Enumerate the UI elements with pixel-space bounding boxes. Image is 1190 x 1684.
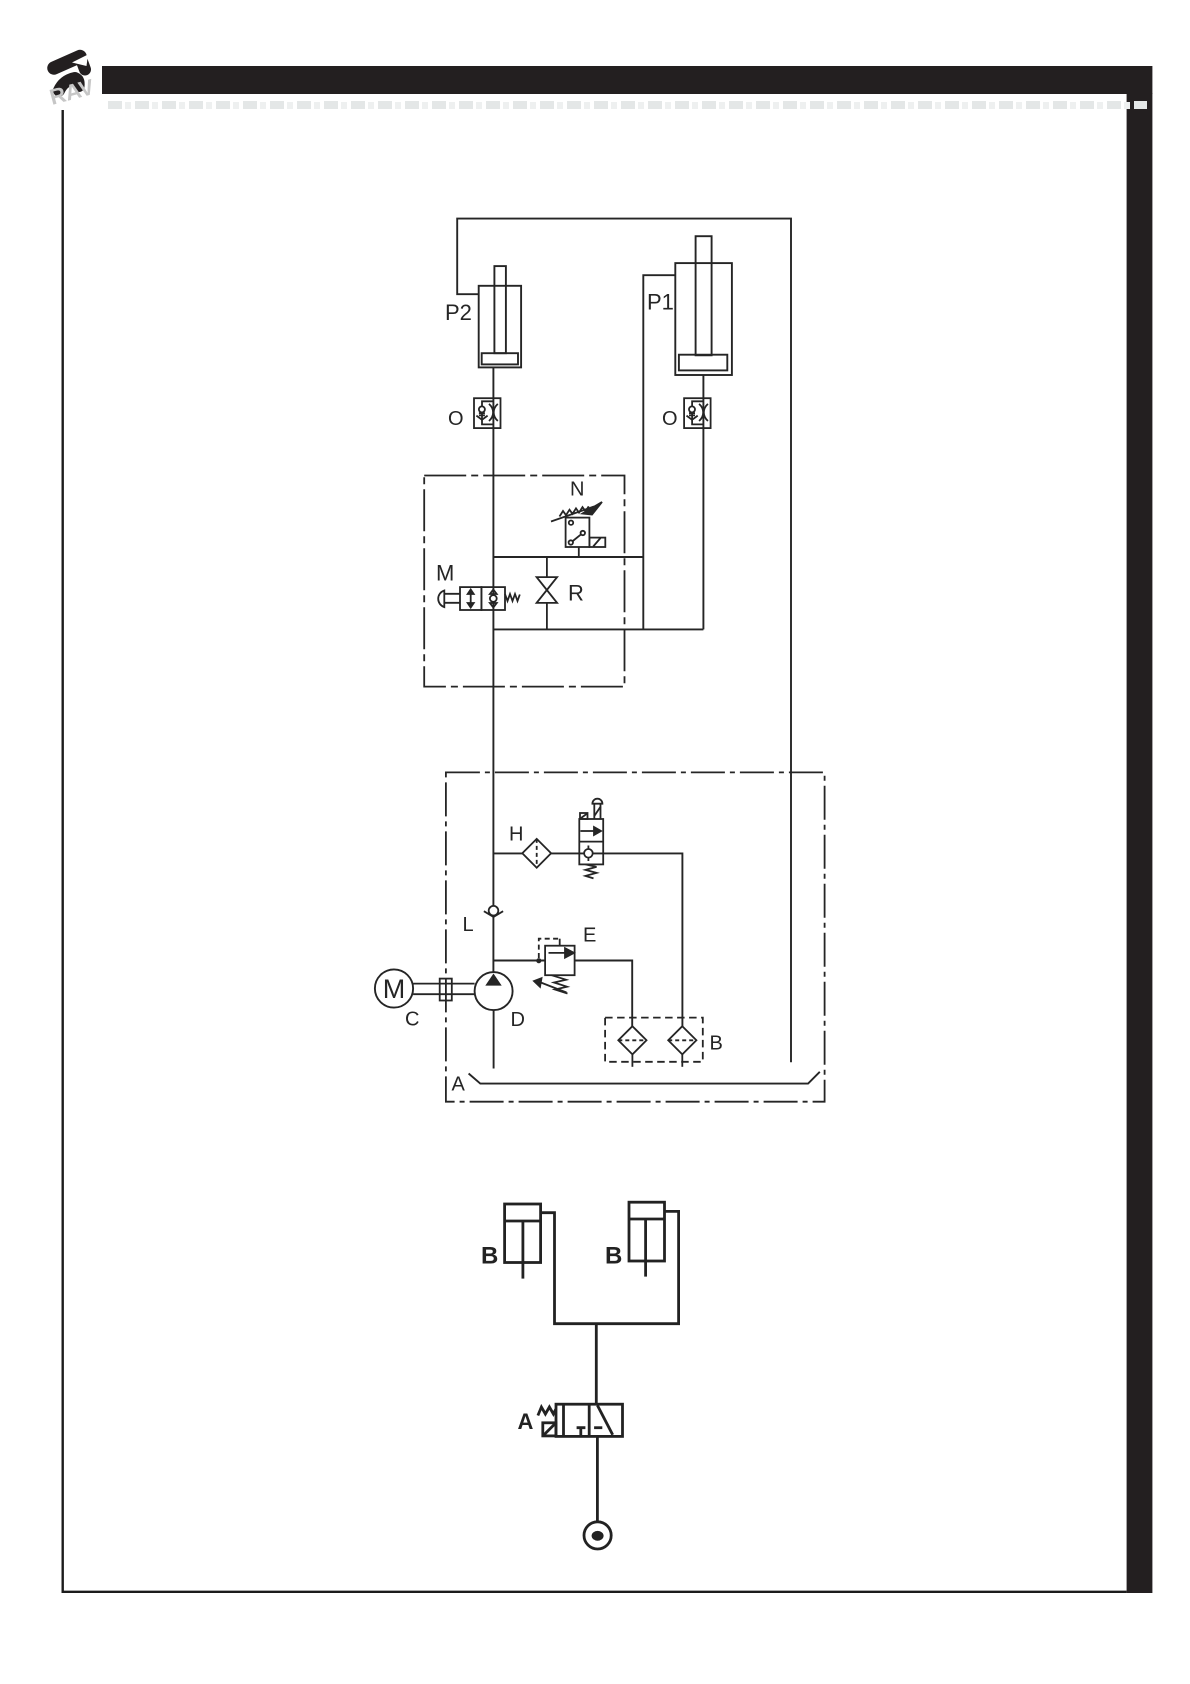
wire: main line [492,367,494,972]
shutoff valve R [537,557,558,629]
svg-text:R: R [568,581,584,606]
cylinder P2 [479,266,521,367]
wire: E branch [493,961,632,1027]
wire: P1 branch down to block [643,275,675,629]
valve A [556,1404,623,1436]
valve block dash-dot box [424,476,624,687]
coupling [440,979,452,1001]
wire: P2 supply frame [457,219,791,1063]
svg-text:M: M [383,974,406,1004]
filter B right diamond [668,1026,696,1067]
cylinder P1 [675,236,732,375]
wire: P1 outlet line [702,375,704,629]
junction dot [536,958,541,963]
svg-text:P1: P1 [647,290,674,315]
check valve L [484,906,503,917]
logo swoosh [54,55,88,91]
right black bar [1127,93,1153,1593]
page border [63,110,1127,1592]
relief valve E [534,939,575,994]
svg-text:O: O [662,408,678,430]
svg-text:D: D [511,1009,525,1031]
motor shaft [413,984,475,995]
svg-text:A: A [452,1074,466,1096]
svg-text:B: B [481,1243,498,1270]
vent valve [579,799,603,879]
cylinder B left [505,1204,541,1263]
wire: valve A to ball [596,1436,599,1521]
ghost text row [107,98,1147,112]
tank A [469,1072,820,1084]
ball center [592,1531,604,1541]
ball fitting [584,1522,611,1549]
cylinder B right [629,1202,665,1261]
wire: block upper link [493,556,643,558]
wire: junction to valve A [595,1324,598,1405]
svg-text:O: O [448,408,464,430]
valve O under P2 [474,398,501,428]
wire: block lower link [493,628,703,630]
pressure switch N [551,502,605,557]
valve O under P1 [684,398,711,428]
svg-text:L: L [463,914,474,936]
header black bar [102,66,1152,94]
power unit dash-dot box [446,772,825,1101]
svg-text:E: E [583,925,596,947]
filter B left diamond [618,1026,646,1067]
motor C [375,969,413,1007]
filter H [522,839,551,868]
suction filters box B [605,1018,703,1062]
svg-text:N: N [570,479,584,501]
pump D [475,972,513,1010]
svg-text:B: B [710,1033,723,1055]
wire: H branch [493,853,682,1026]
svg-text:C: C [405,1009,419,1031]
svg-text:B: B [605,1243,622,1270]
svg-text:M: M [436,561,454,586]
manual valve M [438,587,520,610]
svg-text:A: A [518,1409,534,1434]
wire: cylinders to junction [541,1211,679,1323]
svg-text:P2: P2 [445,300,472,325]
wire: pump suction [493,1010,495,1068]
svg-text:H: H [509,824,523,846]
